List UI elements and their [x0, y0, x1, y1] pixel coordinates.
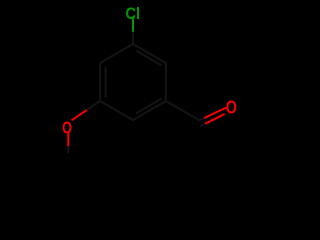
C7=O double bond second line, carbon half — [201, 123, 206, 126]
C7=O double bond second line, oxygen half, red — [206, 114, 224, 123]
bond C6-C1 (top-left to top) — [100, 44, 133, 63]
bond C1-Cl lower (carbon) half — [132, 31, 134, 44]
svg-text:O: O — [226, 98, 237, 118]
bond C3-C4 (bottom-right to bottom) — [133, 101, 166, 120]
C7=O double bond main line, oxygen half, red — [205, 108, 226, 118]
aromatic inner bond C5=C6 — [105, 67, 107, 96]
bond O-CH3 methyl half — [67, 147, 69, 153]
benzene ring C1-C6 outer bonds — [100, 44, 166, 120]
bond C2-C3 (right edge) — [165, 63, 167, 101]
aromatic inner bond C1=C2 — [137, 51, 161, 65]
C7=O double bond main line, carbon half — [199, 118, 205, 121]
bond O-CH3 oxygen half, red — [67, 133, 69, 147]
bond C3-C7 (to aldehyde carbon) — [166, 101, 199, 120]
svg-text:Cl: Cl — [125, 5, 140, 23]
bond C5-O (methoxy) oxygen half, red — [72, 110, 86, 119]
bond C5-O (methoxy) carbon half — [86, 101, 100, 110]
svg-text:O: O — [62, 118, 72, 138]
bond C5-C6 (left edge) — [99, 63, 101, 101]
aromatic inner bond C3=C4 — [137, 99, 161, 113]
bond C1-Cl upper (chlorine) half, green — [132, 19, 134, 31]
bond C1-C2 (top to top-right) — [133, 44, 166, 63]
bond C4-C5 (bottom to bottom-left) — [100, 101, 133, 120]
